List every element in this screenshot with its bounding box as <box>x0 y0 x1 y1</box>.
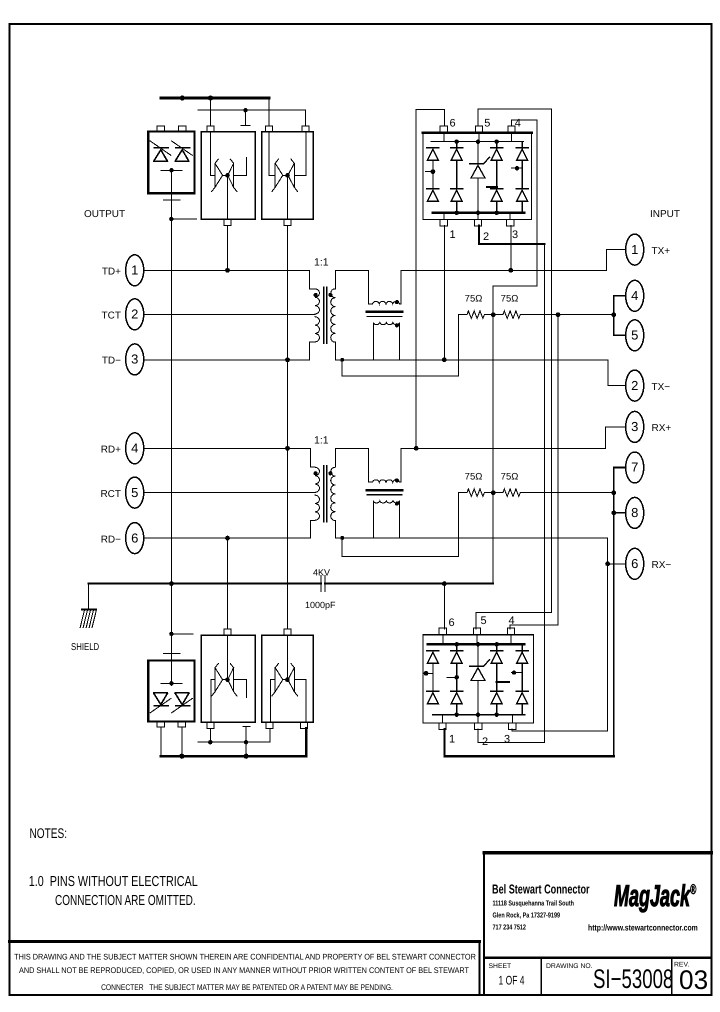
wire extra link TX resistors <box>342 315 458 376</box>
wire loop top pin6 of D1 <box>416 110 444 449</box>
diode array D2 body <box>423 628 534 729</box>
node thin wire stub <box>243 108 247 112</box>
node D2 colB stub <box>447 675 459 679</box>
svg-text:SI−53008: SI−53008 <box>593 964 673 994</box>
pin 4 <box>626 280 644 311</box>
svg-text:1: 1 <box>450 229 456 241</box>
node T2 secondary polarity dot <box>328 471 332 475</box>
diode U2b <box>228 159 237 191</box>
wire T2 secondary top out <box>335 448 368 467</box>
choke L1 core <box>367 311 402 314</box>
svg-text:4KV: 4KV <box>313 568 330 578</box>
stub wire to U2 box <box>171 218 196 220</box>
wire U1 stem to box bottom <box>170 168 172 193</box>
U1 common rail <box>161 170 182 172</box>
node bracket at pin8 <box>611 511 616 516</box>
node D2 colE stub <box>511 670 522 674</box>
wire pins 7-8 bracket <box>614 468 625 757</box>
wire U2 top pin <box>210 98 212 126</box>
svg-text:7: 7 <box>631 460 638 475</box>
svg-text:75Ω: 75Ω <box>465 472 483 483</box>
svg-text:1: 1 <box>131 263 138 278</box>
wire T2 secondary bottom out <box>335 520 607 538</box>
wire TX+ line <box>401 269 607 271</box>
svg-text:4: 4 <box>515 118 521 130</box>
node RD- at U5 wire <box>225 536 230 541</box>
svg-text:RX−: RX− <box>652 560 672 571</box>
node D2 colD stub <box>497 681 509 683</box>
svg-text:TD−: TD− <box>102 356 121 367</box>
thyristor D1q <box>470 142 490 213</box>
svg-text:5: 5 <box>484 118 490 130</box>
protector U5 (TVS pair) <box>201 629 255 728</box>
svg-text:Glen Rock, Pa 17327-9199: Glen Rock, Pa 17327-9199 <box>493 911 561 920</box>
wire TCT <box>145 313 314 315</box>
node pin6 junction <box>605 561 610 566</box>
node D1 colA mid <box>425 160 435 190</box>
wire D2 pin3 to RX- <box>512 729 608 731</box>
svg-text:SHEET: SHEET <box>489 963 512 970</box>
svg-text:4: 4 <box>131 441 138 456</box>
wire T1 secondary top out <box>335 270 368 289</box>
wire cap right end riser <box>493 120 537 584</box>
wire extra link RX resistors <box>342 493 458 557</box>
node TD- at U3 wire <box>285 357 290 362</box>
plate stub between U5 and U6 <box>243 726 250 756</box>
wire thin upper <box>198 110 306 126</box>
node TX resistor at bracket <box>611 312 616 317</box>
node RX+ at loop wire <box>414 446 419 451</box>
sidactor element U1a <box>150 141 171 161</box>
node cap line at left vertical <box>169 581 174 586</box>
wire U2 bottom to TD+ <box>227 226 229 271</box>
diode U5a <box>212 664 223 696</box>
wire pin2 elbow <box>608 360 625 386</box>
choke L1 bottom winding <box>373 323 399 360</box>
pin 5 RCT <box>100 477 143 508</box>
node top bus to U2 <box>208 95 213 100</box>
node stub at thick bus <box>244 754 249 759</box>
node TD+ at U2 <box>225 268 230 273</box>
svg-text:RX+: RX+ <box>652 423 672 434</box>
svg-text:1:1: 1:1 <box>314 257 329 269</box>
node D2 colA mid <box>424 663 433 693</box>
U2 internal wiring <box>211 132 247 220</box>
wire bus elbow to U3 left pin <box>268 98 270 126</box>
disclaimer box <box>10 942 480 996</box>
pin 6 RX- <box>626 548 672 579</box>
svg-text:NOTES:: NOTES: <box>30 825 68 841</box>
node RX- extra link <box>340 536 344 540</box>
pin 3 RX+ <box>626 411 672 442</box>
wire TD- <box>145 342 314 360</box>
wire U4 stem <box>170 661 172 686</box>
pin 1 TD+ <box>102 255 144 286</box>
wire pin1 elbow <box>607 250 625 271</box>
bus wire top <box>161 97 269 100</box>
capacitor C1 1000pF line <box>88 568 493 611</box>
wire pins 4-5 bracket <box>614 296 625 336</box>
wire U3 bottom long vertical <box>287 226 289 629</box>
diode D1c <box>451 142 463 189</box>
svg-text:3: 3 <box>512 229 518 241</box>
wire lower thin bus <box>198 728 270 742</box>
sidactor element U1b <box>172 141 193 161</box>
wire pin6 elbow <box>608 538 625 731</box>
svg-text:1: 1 <box>449 734 455 746</box>
svg-text:RD−: RD− <box>101 534 121 545</box>
sidactor element U4a <box>150 693 171 713</box>
diode D1b <box>427 189 439 202</box>
wire TD+ <box>145 270 314 289</box>
diode D1e <box>491 142 503 189</box>
diode D2e <box>491 644 503 691</box>
svg-text:TCT: TCT <box>102 311 121 322</box>
thyristor D2q <box>470 644 490 714</box>
pin 2 TCT <box>102 299 144 330</box>
wire loop top pin5 of D1 <box>476 109 552 629</box>
diode D2b <box>427 691 439 704</box>
svg-text:RD+: RD+ <box>101 445 121 456</box>
svg-text:8: 8 <box>631 505 638 520</box>
sidactor element U4b <box>172 693 193 713</box>
diode U2a <box>212 159 223 191</box>
diode D2f <box>491 691 503 714</box>
transformer T1 primary winding <box>314 289 320 342</box>
wire D2 pin1 to pin8 bracket <box>445 729 614 756</box>
pin 7 <box>626 452 644 483</box>
wire D1 pin2 to D2 pin2 <box>478 226 544 743</box>
svg-text:Bel Stewart Connector: Bel Stewart Connector <box>492 882 590 897</box>
svg-text:5: 5 <box>481 615 487 627</box>
svg-text:CONNECTER THE SUBJECT MATTER: CONNECTER THE SUBJECT MATTER MAY BE PATE… <box>101 983 393 992</box>
node stub at lower thin bus <box>244 740 248 744</box>
wire RCT <box>145 492 314 494</box>
diode D2c <box>451 644 463 691</box>
svg-text:OUTPUT: OUTPUT <box>84 209 125 220</box>
node TX resistor right tap <box>556 312 561 317</box>
D1 top rail <box>431 140 523 144</box>
wire RD- <box>145 520 314 538</box>
D1 bottom rail <box>433 211 524 215</box>
pin 2 TX- <box>626 370 671 401</box>
svg-text:TD+: TD+ <box>102 267 121 278</box>
choke L2 bottom winding <box>373 501 399 538</box>
diode D1g <box>516 142 528 189</box>
diode U6b <box>288 664 298 696</box>
svg-text:2: 2 <box>483 231 489 243</box>
stub with plate under thin wire <box>241 110 250 126</box>
U3 internal wiring <box>269 132 306 220</box>
node cap line at block wire <box>442 581 447 586</box>
svg-text:http://www.stewartconnector.co: http://www.stewartconnector.com <box>588 923 698 933</box>
D2 top rail <box>428 642 524 646</box>
protector U1 (dual sidactor) <box>148 126 194 193</box>
wire U4 left tab down <box>160 727 162 756</box>
svg-text:1: 1 <box>631 242 638 257</box>
wire RD+ <box>145 448 314 467</box>
svg-text:AND SHALL NOT BE REPRODUCED, C: AND SHALL NOT BE REPRODUCED, COPIED, OR … <box>19 966 469 975</box>
U6 internal wiring <box>271 635 306 722</box>
choke L2 top winding <box>368 448 401 482</box>
svg-text:1 OF 4: 1 OF 4 <box>499 974 525 988</box>
node T1 primary polarity dot <box>314 293 318 297</box>
svg-text:75Ω: 75Ω <box>501 472 519 483</box>
pin 1 TX+ <box>626 234 671 265</box>
choke L2 core <box>367 489 402 492</box>
diode D2a <box>427 651 439 664</box>
node D1 colD stub <box>487 186 497 188</box>
pin 6 RD- <box>101 523 144 554</box>
svg-text:2: 2 <box>631 378 638 393</box>
transformer T2 primary winding <box>314 467 320 520</box>
wire U4 right tab down <box>181 727 183 756</box>
svg-text:3: 3 <box>131 352 138 367</box>
resistor R3 75ohm <box>458 472 503 497</box>
protector U3 (TVS pair) <box>262 126 313 226</box>
wire U5 bottom tab down <box>209 728 211 742</box>
svg-text:6: 6 <box>450 118 456 130</box>
diode D1a <box>427 148 439 161</box>
node T1 secondary polarity dot <box>328 293 332 297</box>
diode U6a <box>272 664 283 696</box>
node U4 right at thick bus <box>179 754 184 759</box>
transformer T1 secondary winding <box>331 289 336 342</box>
svg-text:717 234 7512: 717 234 7512 <box>493 923 526 932</box>
svg-text:RCT: RCT <box>100 489 121 500</box>
svg-text:75Ω: 75Ω <box>465 294 483 305</box>
D2 bottom rail <box>433 713 524 717</box>
D2 pin stems <box>442 635 512 723</box>
protector U4 (dual sidactor) <box>148 661 194 728</box>
svg-text:DRAWING NO.: DRAWING NO. <box>546 963 593 970</box>
wire lower thick bus <box>161 728 306 756</box>
svg-text:1:1: 1:1 <box>314 435 329 447</box>
svg-text:2: 2 <box>482 736 488 748</box>
svg-text:6: 6 <box>449 617 455 629</box>
diode array D1 body <box>423 126 531 226</box>
protector U6 (TVS pair) <box>262 629 313 728</box>
svg-text:6: 6 <box>131 530 138 545</box>
wire left vertical U1 to U4 <box>170 193 172 660</box>
node U1 center <box>169 168 173 172</box>
diode D1f <box>491 189 503 213</box>
node R1-R2 mid tap <box>491 312 496 317</box>
svg-text:75Ω: 75Ω <box>501 294 519 305</box>
resistor R4 75ohm <box>501 472 614 497</box>
svg-text:SHIELD: SHIELD <box>71 642 99 653</box>
wire RX+ line <box>401 447 606 449</box>
svg-text:5: 5 <box>631 328 638 343</box>
wire U5 top to RD- <box>227 538 229 629</box>
diode U3a <box>272 159 283 191</box>
diode U3b <box>288 159 298 191</box>
wire D1 pin3 to TX+ <box>510 226 512 271</box>
svg-text:THIS DRAWING AND THE SUBJECT M: THIS DRAWING AND THE SUBJECT MATTER SHOW… <box>14 953 476 962</box>
choke L1 top winding <box>368 270 401 304</box>
svg-text:03: 03 <box>679 965 708 995</box>
svg-text:1.0 PINS WITHOUT ELECTRICAL: 1.0 PINS WITHOUT ELECTRICAL <box>29 874 198 890</box>
diode U5b <box>228 664 237 696</box>
diode D1d <box>451 189 463 213</box>
svg-text:4: 4 <box>509 615 515 627</box>
diode D1h <box>516 189 528 213</box>
svg-text:INPUT: INPUT <box>650 209 680 220</box>
svg-text:3: 3 <box>504 734 510 746</box>
node TX+ at block pin3 <box>509 268 514 273</box>
svg-text:6: 6 <box>631 556 638 571</box>
svg-text:11118 Susquehanna Trail South: 11118 Susquehanna Trail South <box>493 899 575 908</box>
stub wire to U5 box <box>171 633 193 635</box>
svg-text:3: 3 <box>631 419 638 434</box>
resistor R1 75ohm <box>458 294 503 319</box>
plate below U1 <box>164 199 180 201</box>
U5 internal wiring <box>211 635 247 722</box>
svg-text:2: 2 <box>131 307 138 322</box>
pin 4 RD+ <box>101 433 144 464</box>
diode D2g <box>516 644 528 691</box>
node TX- extra link <box>340 358 344 362</box>
node U4 center <box>169 681 173 685</box>
node U5 at lower thin bus <box>208 740 212 744</box>
transformer T2 core <box>324 466 327 522</box>
plate above U4 <box>164 653 180 655</box>
diode D2h <box>516 691 528 714</box>
node mid riser at R1R2 <box>491 312 496 317</box>
node mid riser at R3R4 <box>491 490 496 495</box>
node left vertical stub A <box>169 217 173 221</box>
node on top bus <box>180 95 185 100</box>
resistor R2 75ohm <box>501 294 614 319</box>
node T2 primary polarity dot <box>314 471 318 475</box>
wire TX resistor tap to D2 pin4 <box>510 315 558 629</box>
transformer T1 core <box>324 287 327 343</box>
svg-text:4: 4 <box>631 288 638 303</box>
node RX resistor at bracket <box>611 490 616 495</box>
svg-text:5: 5 <box>131 485 138 500</box>
pin 8 <box>626 497 644 528</box>
wire cap to D2 pin6 <box>443 584 445 630</box>
svg-text:TX−: TX− <box>652 382 671 393</box>
wire D1 pin1 to TX- <box>443 226 445 360</box>
svg-text:CONNECTION ARE OMITTED.: CONNECTION ARE OMITTED. <box>55 893 196 909</box>
svg-text:1000pF: 1000pF <box>305 600 336 610</box>
ground shield symbol <box>71 584 99 653</box>
wire T1 secondary bottom out <box>335 342 608 360</box>
D1 pin stems <box>444 133 512 220</box>
node R3-R4 mid tap <box>491 490 496 495</box>
svg-text:MagJack®: MagJack® <box>614 880 697 913</box>
node left vertical stub B <box>169 632 173 636</box>
pin 3 TD- <box>102 344 144 375</box>
node D1 colE stub <box>511 166 522 170</box>
U4 common rail <box>161 682 182 684</box>
transformer T2 secondary winding <box>331 467 336 520</box>
svg-text:TX+: TX+ <box>652 246 671 257</box>
protector U2 (TVS pair) <box>201 126 255 226</box>
node TX- at block wire <box>442 357 447 362</box>
node RD+ at U3 wire <box>285 446 290 451</box>
diode D2d <box>451 691 463 714</box>
pin 5 <box>626 320 644 351</box>
wire pin3 elbow <box>606 427 625 448</box>
title block frame <box>484 853 712 995</box>
